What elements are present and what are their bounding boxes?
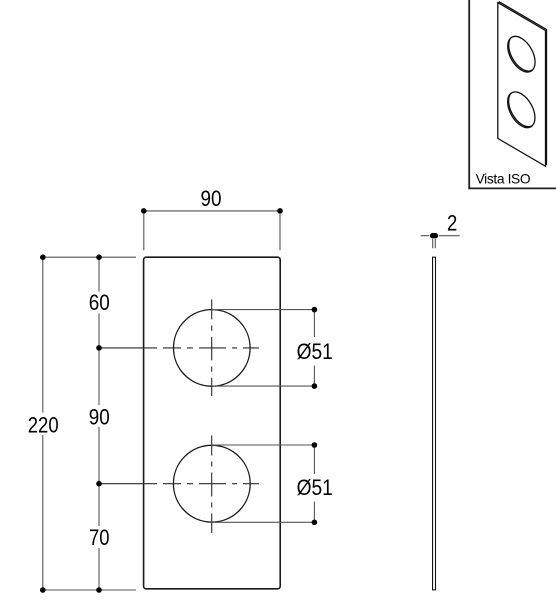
dimension 220: line xyxy=(42,257,44,590)
svg-text:2: 2 xyxy=(447,211,457,236)
svg-text:70: 70 xyxy=(89,525,110,550)
dimension 90 top: extension lines xyxy=(144,214,280,250)
dimension 2: dots xyxy=(430,233,436,239)
svg-text:60: 60 xyxy=(89,290,110,315)
iso hole 2 back rim xyxy=(503,86,542,131)
centerline hole1 vertical xyxy=(211,300,213,397)
svg-text:220: 220 xyxy=(28,412,59,437)
inner ordinate dots xyxy=(96,254,102,260)
iso hole 1 back rim xyxy=(503,31,542,76)
iso plate front face xyxy=(498,3,546,167)
hole1 diameter leaders xyxy=(212,310,315,387)
inner ordinate line xyxy=(98,257,100,590)
svg-text:Ø51: Ø51 xyxy=(297,339,333,364)
dimension 90 top: line xyxy=(144,210,280,212)
front view plate xyxy=(144,257,281,589)
title block box (Vista ISO cell) xyxy=(469,0,556,188)
hole2 diameter dots xyxy=(312,442,318,448)
iso plate back top edge (thickness) xyxy=(499,2,547,166)
dimension 220: extension lines xyxy=(40,257,136,590)
dimension 2: extension lines xyxy=(433,239,436,248)
hole2 diameter leaders xyxy=(212,445,315,522)
centerline hole2 horizontal xyxy=(99,483,259,485)
iso hole 1 xyxy=(502,32,541,77)
side view plate xyxy=(433,257,436,590)
centerline hole1 horizontal xyxy=(99,347,259,349)
svg-text:Vista ISO: Vista ISO xyxy=(476,171,531,186)
dimension 90 top: dots xyxy=(141,208,147,214)
hole2 diameter dim line xyxy=(313,445,315,522)
hole1 diameter dim line xyxy=(313,310,315,387)
hole 2 xyxy=(173,445,250,522)
svg-text:90: 90 xyxy=(89,405,110,430)
iso hole 2 xyxy=(502,87,541,132)
svg-text:90: 90 xyxy=(201,186,222,211)
dimension 220: dots xyxy=(40,254,46,260)
svg-text:Ø51: Ø51 xyxy=(297,475,333,500)
hole 1 xyxy=(174,310,251,387)
hole1 diameter dots xyxy=(312,307,318,313)
centerline hole2 vertical xyxy=(211,436,213,534)
dimension 2: line xyxy=(421,235,460,237)
